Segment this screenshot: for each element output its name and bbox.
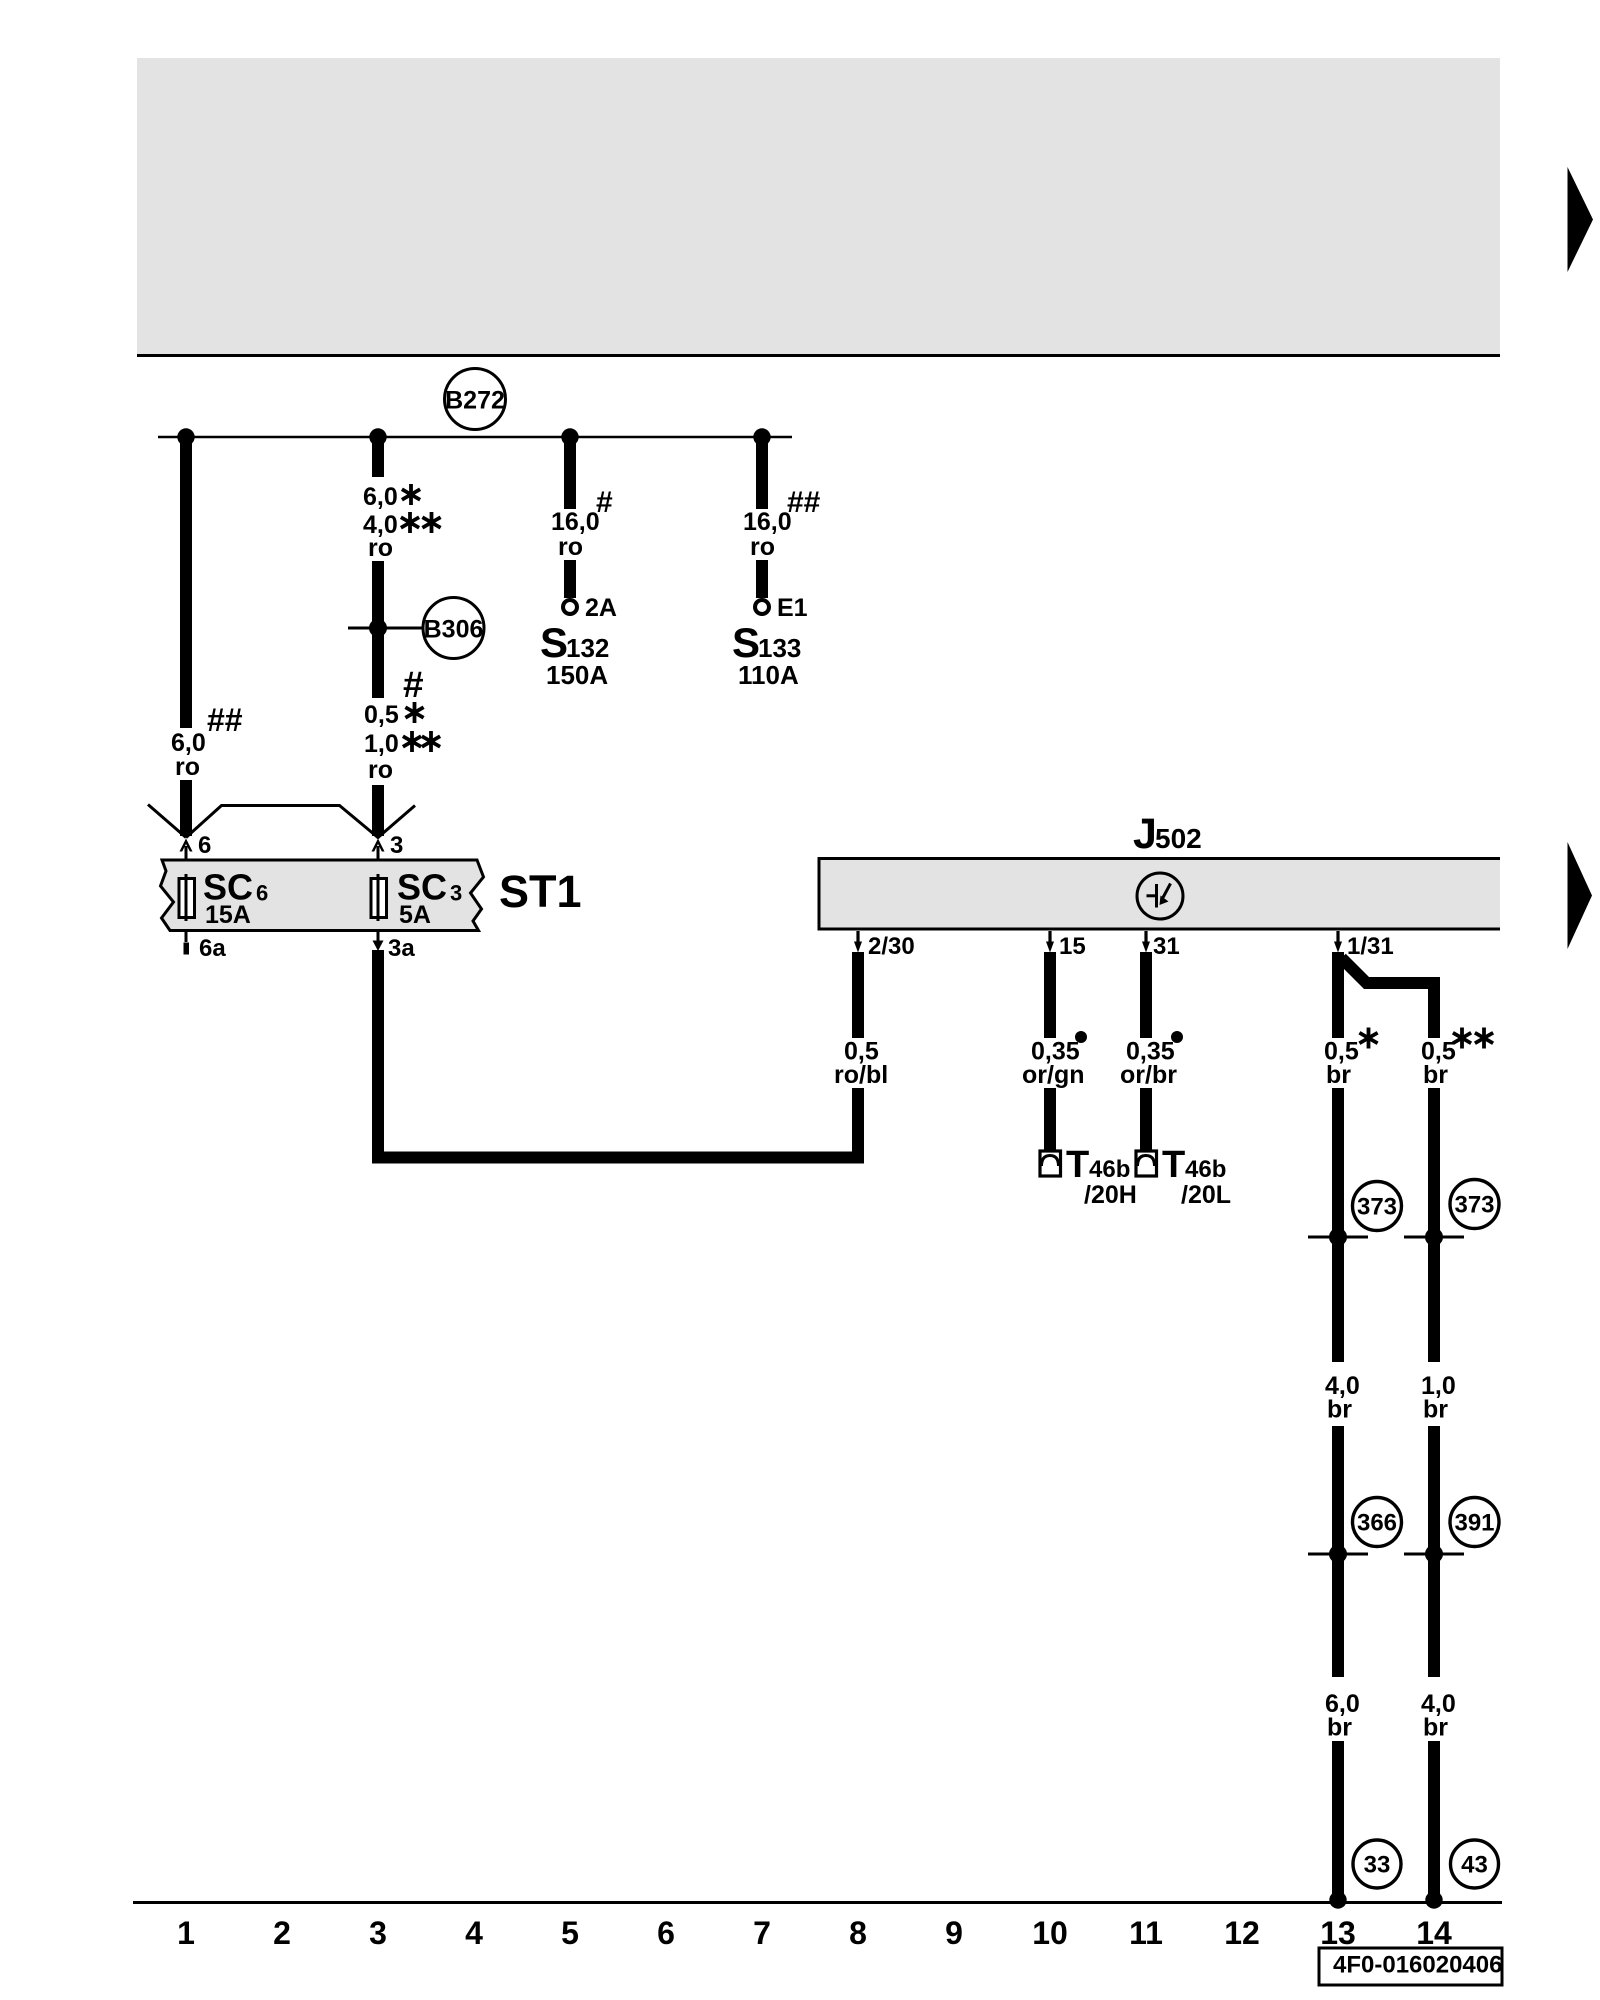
header bottom frame line: [137, 354, 1500, 357]
svg-text:6,0: 6,0: [363, 483, 398, 511]
fuse SC6 symbol: [179, 874, 195, 921]
svg-text:31: 31: [1153, 933, 1180, 960]
terminal arrow J502 pin 15: [1046, 931, 1054, 953]
svg-text:br: br: [1326, 1061, 1351, 1089]
svg-text:150A: 150A: [546, 660, 608, 690]
wire 6,0/4,0 ro track3 upper segment: [372, 437, 384, 477]
svg-text:1: 1: [177, 1915, 195, 1951]
label asterisk (track13): [1359, 1028, 1377, 1049]
control unit designator J502: [1133, 810, 1202, 858]
svg-text:7: 7: [753, 1915, 771, 1951]
svg-text:15: 15: [1059, 933, 1086, 960]
fuse S133 terminal E1 circle: [755, 600, 769, 614]
svg-text:S: S: [540, 619, 568, 666]
ground terminal dot track13: [1329, 1891, 1346, 1908]
svg-text:8: 8: [849, 1915, 867, 1951]
svg-text:/20H: /20H: [1084, 1181, 1137, 1209]
wire 6,0 ro track1 upper segment: [180, 437, 192, 728]
control unit J502 box: [819, 860, 1500, 930]
svg-text:#: #: [596, 486, 613, 519]
svg-text:6a: 6a: [199, 935, 226, 962]
terminal arrow into SC3 (pin 3): [372, 839, 385, 880]
wire track14 segment 3: [1428, 1426, 1440, 1677]
wire track14 segment 4 to ground: [1428, 1741, 1440, 1900]
svg-text:##: ##: [207, 702, 243, 738]
diagram part number box: [1319, 1948, 1502, 1985]
label double asterisk (1,0): [403, 731, 421, 752]
wire 0,35 or/gn upper segment (track 10): [1044, 952, 1056, 1038]
ground node 43: [1451, 1840, 1499, 1888]
svg-text:T: T: [1066, 1144, 1089, 1186]
svg-text:6: 6: [198, 832, 211, 859]
svg-text:or/br: or/br: [1120, 1061, 1177, 1089]
node 373 (track13): [1353, 1182, 1402, 1231]
node 391 (track14): [1450, 1498, 1499, 1547]
node B306 junction dot: [369, 619, 387, 637]
wire segment below J502 pin 2/30: [852, 952, 864, 1038]
fuse panel ST1 box: [161, 860, 484, 931]
wire 0,35 or/br upper segment (track 11): [1140, 952, 1152, 1038]
svg-text:T: T: [1162, 1144, 1185, 1186]
junction on bus at track 7: [753, 428, 770, 445]
svg-text:1,0: 1,0: [364, 730, 399, 758]
svg-text:/20L: /20L: [1181, 1181, 1231, 1209]
junction dot track14 at 391: [1425, 1545, 1443, 1563]
svg-text:6: 6: [256, 881, 268, 906]
terminal arrow J502 pin 31: [1142, 931, 1150, 953]
junction dot track13 at 373: [1329, 1228, 1347, 1246]
svg-text:16,0: 16,0: [551, 508, 600, 536]
svg-text:9: 9: [945, 1915, 963, 1951]
svg-text:10: 10: [1032, 1915, 1068, 1951]
svg-text:ro: ro: [558, 533, 583, 561]
svg-text:br: br: [1327, 1396, 1352, 1424]
header box: [137, 58, 1500, 354]
continuation arrow top right: [1568, 167, 1594, 272]
pin 6a stub wire: [184, 931, 190, 955]
svg-text:11: 11: [1129, 1915, 1163, 1951]
node B272: [445, 369, 506, 430]
wire 0,35 or/gn lower segment: [1044, 1088, 1056, 1151]
wire 0,35 or/br lower segment: [1140, 1088, 1152, 1151]
svg-text:366: 366: [1357, 1510, 1397, 1537]
svg-text:133: 133: [758, 633, 801, 663]
fuse S132 designator: [540, 619, 609, 666]
svg-text:ro: ro: [368, 534, 393, 562]
wire branch from 1/31 to track14: [1342, 958, 1435, 1038]
wire 6,0 ro track1 lower segment: [180, 780, 192, 836]
svg-text:B272: B272: [445, 387, 505, 415]
wire 0,5 br track13 top segment from pin 1/31: [1332, 952, 1344, 1038]
junction tick track13 at 373: [1308, 1236, 1368, 1239]
svg-text:391: 391: [1454, 1510, 1494, 1537]
ground node 33: [1353, 1840, 1401, 1888]
node 366 (track13): [1353, 1498, 1402, 1547]
junction tick track14 at 391: [1404, 1553, 1464, 1556]
svg-text:S: S: [732, 619, 760, 666]
wire track13 segment 4 to ground: [1332, 1741, 1344, 1900]
junction on bus at track 3: [369, 428, 386, 445]
connector designator T46b (/20H): [1066, 1144, 1130, 1186]
svg-text:4F0-016020406: 4F0-016020406: [1333, 1952, 1502, 1979]
fuse SC6 designator: [203, 867, 268, 908]
svg-text:0,5: 0,5: [364, 701, 399, 729]
svg-text:46b: 46b: [1185, 1156, 1226, 1183]
junction dot track14 at 373: [1425, 1228, 1443, 1246]
terminal arrow J502 pin 2/30: [854, 931, 862, 953]
wire track13 segment 3: [1332, 1426, 1344, 1677]
fuse SC3 symbol: [371, 874, 387, 921]
junction on bus at track 1: [177, 428, 194, 445]
svg-text:2A: 2A: [585, 594, 617, 622]
svg-text:2/30: 2/30: [868, 933, 915, 960]
connection bridge above fuse panel: [148, 805, 415, 838]
svg-text:46b: 46b: [1089, 1156, 1130, 1183]
svg-text:110A: 110A: [738, 660, 799, 690]
connector T46b/20L symbol: [1136, 1151, 1157, 1176]
wire: positive supply bus: [158, 436, 792, 439]
svg-text:br: br: [1423, 1061, 1448, 1089]
svg-text:br: br: [1423, 1396, 1448, 1424]
svg-text:5: 5: [561, 1915, 579, 1951]
node B306 tick: [348, 627, 423, 630]
svg-text:J: J: [1133, 810, 1157, 858]
svg-text:ro/bl: ro/bl: [834, 1061, 888, 1089]
fuse S132 terminal 2A circle: [563, 600, 577, 614]
svg-text:br: br: [1423, 1714, 1448, 1742]
ground terminal dot track14: [1425, 1891, 1442, 1908]
svg-text:#: #: [403, 664, 424, 705]
connector designator T46b (/20L): [1162, 1144, 1226, 1186]
label double asterisk (4,0): [401, 512, 419, 533]
terminal arrow into SC6 (pin 6): [180, 839, 193, 880]
junction tick track13 at 366: [1308, 1553, 1368, 1556]
connector T46b/20H symbol: [1040, 1151, 1061, 1176]
node B306: [423, 598, 484, 659]
svg-text:3a: 3a: [388, 935, 415, 962]
ground / frame line: [133, 1901, 1502, 1904]
junction on bus at track 5: [561, 428, 578, 445]
svg-text:or/gn: or/gn: [1022, 1061, 1085, 1089]
label dot (or/gn): [1075, 1031, 1087, 1043]
svg-text:br: br: [1327, 1714, 1352, 1742]
svg-text:15A: 15A: [205, 901, 251, 929]
pin 3a terminal arrow: [373, 931, 384, 952]
wire 16,0 ro track7 upper segment: [756, 437, 768, 509]
wire track3 middle segment: [372, 561, 384, 698]
svg-text:ST1: ST1: [499, 866, 582, 917]
svg-text:373: 373: [1357, 1194, 1397, 1221]
svg-text:3: 3: [369, 1915, 387, 1951]
wire 16,0 ro track5 upper segment: [564, 437, 576, 509]
label dot (or/br): [1171, 1031, 1183, 1043]
wire track14 segment 2: [1428, 1088, 1440, 1362]
svg-text:1/31: 1/31: [1347, 933, 1394, 960]
fuse SC3 designator: [397, 867, 462, 908]
svg-text:16,0: 16,0: [743, 508, 792, 536]
svg-text:ro: ro: [175, 753, 200, 781]
svg-text:13: 13: [1320, 1915, 1356, 1951]
svg-text:502: 502: [1155, 823, 1202, 854]
label asterisk (6,0): [402, 484, 420, 505]
junction tick track14 at 373: [1404, 1236, 1464, 1239]
label asterisk (0,5): [405, 702, 423, 723]
svg-text:ro: ro: [368, 756, 393, 784]
junction dot track13 at 366: [1329, 1545, 1347, 1563]
svg-text:4: 4: [465, 1915, 483, 1951]
svg-text:43: 43: [1461, 1852, 1488, 1879]
node 373 (track14): [1450, 1180, 1499, 1229]
svg-text:##: ##: [787, 486, 821, 519]
wire track3 lower segment: [372, 785, 384, 836]
svg-text:B306: B306: [424, 616, 484, 644]
wire track5 lower segment: [564, 560, 576, 598]
wire track13 segment 2: [1332, 1088, 1344, 1362]
svg-text:ro: ro: [750, 533, 775, 561]
wire 0,5 ro/bl from SC3 pin 3a down and right to J502 pin 2/30: [378, 950, 858, 1158]
svg-text:33: 33: [1364, 1852, 1391, 1879]
svg-text:373: 373: [1454, 1192, 1494, 1219]
svg-text:6: 6: [657, 1915, 675, 1951]
svg-text:132: 132: [566, 633, 609, 663]
svg-text:3: 3: [450, 881, 462, 906]
continuation arrow middle right: [1568, 842, 1593, 949]
svg-text:12: 12: [1224, 1915, 1260, 1951]
fuse S133 designator: [732, 619, 801, 666]
svg-text:5A: 5A: [399, 901, 431, 929]
label double asterisk (track14): [1453, 1028, 1471, 1049]
svg-text:2: 2: [273, 1915, 291, 1951]
svg-text:3: 3: [390, 832, 403, 859]
self-diagnosis symbol (circled K) inside J502: [1137, 873, 1183, 919]
wire track7 lower segment: [756, 560, 768, 598]
terminal arrow J502 pin 1/31: [1334, 931, 1342, 953]
svg-text:14: 14: [1416, 1915, 1452, 1951]
svg-text:E1: E1: [777, 594, 808, 622]
